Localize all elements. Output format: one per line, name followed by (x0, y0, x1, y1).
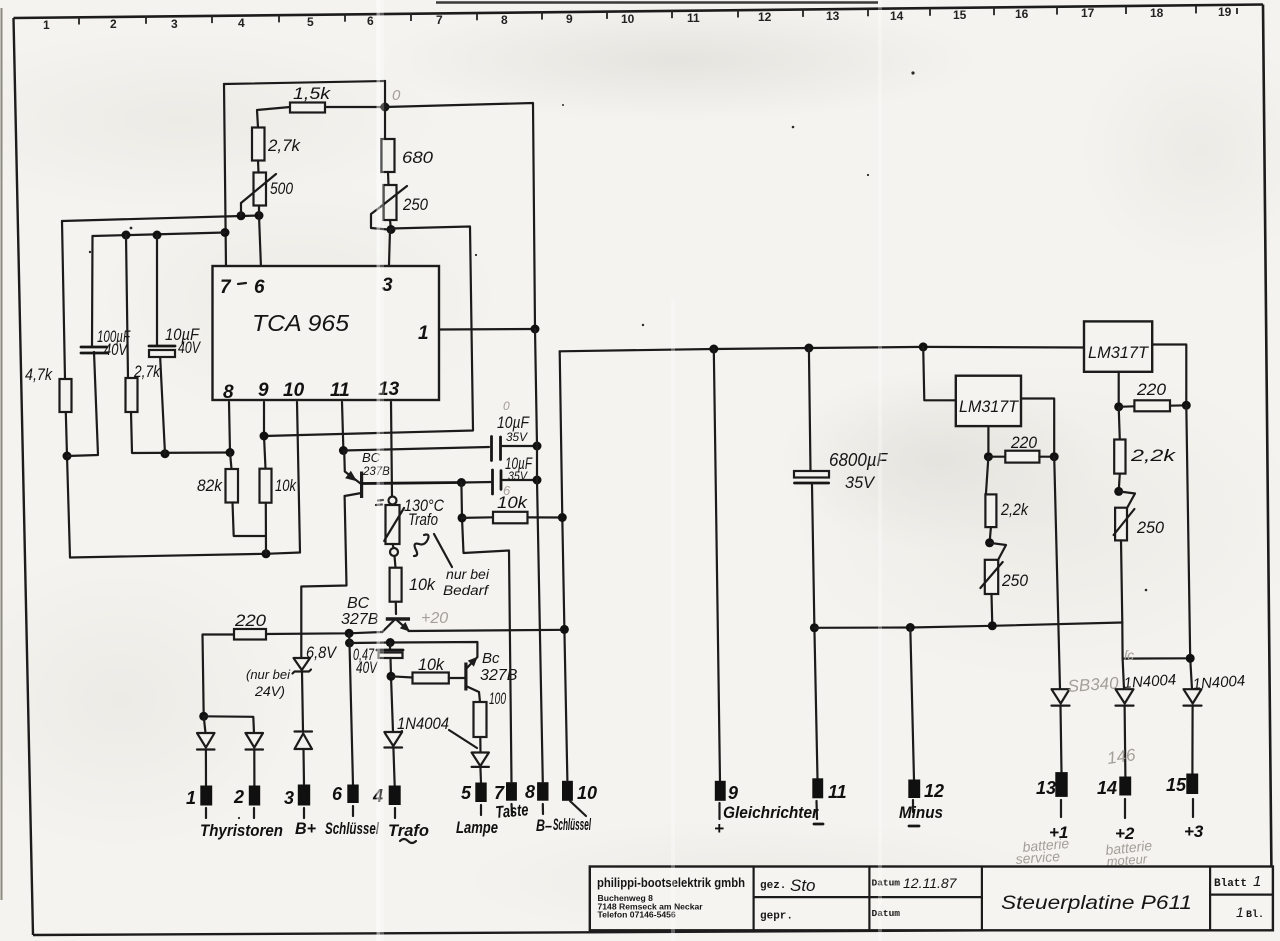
wire D8 to pad15 (1191, 706, 1193, 774)
svg-text:220: 220 (1010, 433, 1037, 452)
wire pin3 junction east then down to y431 rail (264, 227, 473, 437)
node minus rail left junction (810, 623, 819, 632)
wire 100uF top column (91, 236, 94, 347)
connector pad 8 (537, 782, 548, 801)
wire 500 bottom (258, 206, 260, 216)
svg-text:Sto: Sto (790, 876, 816, 895)
wire 10k bottom to y555 rail (265, 503, 267, 554)
svg-text:gez.: gez. (760, 880, 786, 892)
node 10k right junction (558, 513, 567, 522)
svg-text:Schlüssel: Schlüssel (553, 815, 592, 834)
svg-text:TCA 965: TCA 965 (252, 310, 349, 336)
resistor 82k (226, 469, 239, 503)
svg-text:B–: B– (536, 816, 552, 835)
resistor 10k (vertical mid) (390, 568, 402, 602)
svg-text:Bl.: Bl. (1246, 909, 1264, 921)
svg-text:Telefon 07146-5456: Telefon 07146-5456 (598, 910, 676, 920)
wire 0.47uF bottom to diode4 (391, 658, 394, 732)
svg-text:10k: 10k (418, 655, 445, 674)
wire y643 rail to Q3 collector (350, 642, 478, 657)
wire +3 column (1186, 405, 1192, 689)
wire pin 9 column (264, 402, 266, 469)
node cap2 base junction (457, 478, 466, 487)
wire pot-1 wiper bracket (990, 543, 1006, 561)
svg-text:Blatt: Blatt (1214, 878, 1247, 890)
wire 1.5k right link (325, 106, 385, 108)
wire 100 to diode5 (479, 737, 481, 753)
svg-text:7: 7 (494, 783, 505, 803)
svg-text:Gleichrichter: Gleichrichter (723, 803, 819, 822)
svg-text:327B: 327B (480, 667, 518, 684)
wire Q1 collector down-around to zener column (301, 496, 346, 658)
wire LM317-1 adj down (987, 426, 989, 457)
svg-text:3: 3 (284, 788, 294, 808)
svg-text:680: 680 (402, 148, 434, 167)
zener diode 6,8V (293, 643, 338, 674)
node 220-2 right junction (1182, 401, 1191, 410)
potentiometer 250 (left regulator) (980, 560, 1028, 594)
wire 10k to Q2 (395, 602, 397, 614)
svg-text:24V): 24V) (254, 684, 285, 699)
connector pad 1 (200, 786, 212, 806)
resistor 2,2k (right regulator) (1114, 440, 1125, 474)
wire 10k left link (462, 516, 493, 519)
svg-text:11: 11 (828, 782, 847, 802)
node 2.7k top junction (122, 231, 131, 240)
svg-text:(nur bei: (nur bei (246, 668, 291, 682)
svg-text:18: 18 (1150, 6, 1164, 20)
squiggle pigtail (414, 535, 429, 557)
wire 220-2 left link (1119, 405, 1135, 408)
wire diode1 to pad1 (205, 750, 207, 787)
node pot-1 bottom junction (988, 621, 997, 630)
node 10uF40V top junction (153, 231, 162, 240)
connector pad 11 (812, 778, 823, 798)
node 0.47uF top tap (386, 638, 395, 647)
diode D7 1N4004 (1116, 671, 1177, 705)
potentiometer 250 (right regulator) (1114, 508, 1165, 541)
node minus column junction (906, 623, 915, 632)
svg-text:9: 9 (566, 12, 573, 26)
wire D7 to pad14 (1123, 706, 1126, 777)
svg-text:Thyristoren: Thyristoren (200, 821, 283, 840)
node pot-2 top junction (1114, 487, 1123, 496)
wire Q1 base line to cap2 junction (362, 483, 462, 484)
wire diode3 to pad3 (302, 749, 305, 785)
diode D8 1N4004 (1184, 672, 1246, 705)
resistor 680 (382, 139, 395, 172)
node pin11 junction (339, 446, 348, 455)
svg-text:BC: BC (347, 595, 370, 612)
wire 10uF 40V column (157, 235, 165, 454)
svg-text:1: 1 (418, 323, 429, 344)
wire thyristor rail east and down (204, 716, 254, 733)
connector pad 5 (475, 783, 486, 803)
node pin1 junction (531, 325, 540, 334)
wire pot-1 bottom (990, 594, 993, 626)
wire pin 13 column (391, 402, 392, 497)
resistor 2,7k (lower) (126, 378, 138, 412)
connector pad 2 (249, 786, 260, 806)
resistor 2,7k (upper) (252, 128, 265, 161)
node 1.5k/680 junction (381, 103, 390, 112)
svg-text:Minus: Minus (899, 803, 943, 822)
svg-text:Schlüssel: Schlüssel (325, 819, 380, 838)
wire y450 to cap1 (343, 447, 489, 451)
wire SB340 column (1054, 457, 1060, 690)
svg-text:17: 17 (1081, 6, 1095, 20)
svg-text:10k: 10k (409, 575, 436, 594)
svg-text:19: 19 (1218, 5, 1232, 19)
svg-text:13: 13 (1036, 778, 1056, 798)
connector pad 7 (506, 782, 517, 801)
wire 220-1 left link (988, 456, 1005, 458)
node pin9 bottom junction (262, 549, 271, 558)
svg-text:220: 220 (234, 611, 267, 630)
wire 2.2k-1 column (986, 457, 989, 495)
svg-text:35V: 35V (506, 430, 528, 444)
wire Taste column with jog (461, 483, 511, 783)
wire minus rail y627 (814, 623, 1122, 628)
svg-text:40V: 40V (178, 338, 201, 357)
node 220-1 right junction (1050, 452, 1059, 461)
wire bus to LM317-1 input (923, 347, 956, 400)
wire 250 bottom (390, 220, 391, 230)
diode D1 (197, 733, 215, 750)
wire Schluessel column (560, 351, 568, 781)
node bus/6800uF junction (804, 344, 813, 353)
resistor 220 (right regulator) (1134, 400, 1170, 411)
svg-text:2,2k: 2,2k (1000, 500, 1029, 519)
svg-text:10: 10 (577, 783, 597, 803)
wire 2.7k-500 link (257, 161, 260, 173)
op-amp U1 TCA 965 (213, 266, 440, 403)
thermal switch 130C Trafo (376, 496, 445, 556)
svg-text:12: 12 (758, 10, 772, 24)
svg-text:1: 1 (43, 18, 50, 32)
svg-text:2: 2 (110, 17, 117, 31)
node +2/+3 rail junction (1186, 654, 1195, 663)
wire 4.7k top (62, 221, 65, 379)
connector pad 15 (1186, 774, 1198, 795)
svg-text:10k: 10k (497, 493, 529, 512)
node pin8 junction (226, 448, 235, 457)
wire LM317-1 output to 220 right (1021, 399, 1054, 457)
svg-text:4: 4 (238, 16, 245, 30)
wire diode5 to pad5 (479, 767, 482, 783)
svg-text:8: 8 (501, 13, 508, 27)
node pin6 top junction (255, 211, 264, 220)
svg-text:250: 250 (1001, 571, 1028, 590)
svg-text:SB340: SB340 (1067, 673, 1120, 696)
wire 220 right to Q2 (266, 632, 383, 634)
svg-text:Bedarf: Bedarf (443, 583, 489, 598)
connector pad 9 (715, 781, 726, 801)
svg-text:40V: 40V (104, 340, 128, 359)
resistor 10k (horizontal) (413, 673, 449, 684)
minus sign pad12 (909, 825, 919, 828)
wire 2.2k-2 column (1119, 407, 1120, 440)
node 10k base rail tap (387, 672, 396, 681)
wire 680-250 link (387, 172, 390, 185)
svg-text:1N4004: 1N4004 (397, 714, 449, 733)
wire 4.7k bottom to corner (66, 412, 70, 558)
svg-text:Datum: Datum (872, 908, 901, 919)
svg-text:327B: 327B (341, 611, 379, 628)
connector pad 12 (908, 780, 920, 799)
wire cap1 right to B- column (501, 445, 538, 447)
resistor 220 (left) (234, 629, 266, 640)
svg-text:LM317T: LM317T (1088, 343, 1150, 362)
svg-text:0: 0 (503, 399, 510, 413)
svg-text:Trafo: Trafo (408, 510, 438, 529)
node pin7/bias junction (221, 228, 230, 237)
wire 2.7k bottom to pin8 column (131, 412, 230, 453)
wire zener to diode3 (302, 672, 303, 732)
svg-text:2,7k: 2,7k (267, 136, 301, 155)
svg-text:15: 15 (953, 8, 967, 22)
svg-text:service: service (1015, 848, 1061, 867)
wire 10k horizontal left link (391, 676, 413, 677)
svg-text:8: 8 (223, 382, 234, 403)
resistor 2,2k (left regulator) (985, 494, 996, 527)
svg-text:12.11.87: 12.11.87 (903, 875, 958, 891)
wire 10k right link (528, 516, 563, 518)
label nur bei Bedarf with pointer (434, 534, 490, 598)
wire bottom rail y555 (70, 553, 300, 558)
svg-text:Bc: Bc (482, 650, 500, 667)
svg-text:6: 6 (254, 277, 265, 298)
regulator U3 LM317T (1084, 321, 1152, 371)
svg-text:3: 3 (171, 17, 178, 31)
svg-text:2,7k: 2,7k (133, 362, 161, 381)
node thyristor rail junction (199, 712, 208, 721)
wire connector 6 column (349, 633, 353, 785)
potentiometer 500 (241, 173, 293, 206)
capacitor C4 10uF 35V (lower) (493, 454, 534, 498)
wire diode2 to pad2 (253, 750, 255, 787)
regulator U2 LM317T (956, 376, 1021, 426)
connector pad 6 (347, 785, 358, 804)
svg-text:+3: +3 (1184, 822, 1204, 841)
svg-text:100: 100 (489, 689, 506, 708)
title block frame (590, 867, 1273, 931)
svg-text:Taste: Taste (495, 800, 530, 822)
svg-text:6,8V: 6,8V (306, 643, 337, 662)
wire 220-1 right link (1039, 456, 1054, 458)
wire upper-left rail y215 (62, 216, 259, 222)
capacitor 10uF 40V (149, 325, 201, 357)
wire 1.5k node to B- column top (385, 103, 535, 329)
capacitor C3 10uF 35V (upper) (492, 399, 531, 461)
svg-text:1: 1 (1236, 904, 1244, 920)
svg-text:11: 11 (687, 11, 700, 25)
wire to diode1 (204, 716, 206, 733)
svg-text:5: 5 (461, 783, 472, 803)
wire cap2 right to B- column (501, 479, 537, 481)
svg-text:0: 0 (392, 87, 401, 104)
node bus/Gleichrichter junction (709, 345, 718, 354)
node 500-pot wiper junction (237, 211, 246, 220)
svg-text:gepr.: gepr. (760, 911, 793, 923)
svg-text:Lampe: Lampe (456, 818, 498, 837)
wire pin 10 column (297, 402, 300, 553)
wire cap2 left to base junction (461, 481, 492, 484)
node cap2 junction (533, 476, 542, 485)
transistor Q1 BC237B (344, 450, 390, 498)
potentiometer 250 (left) (379, 185, 428, 220)
connector pad 13 (1055, 772, 1067, 797)
svg-text:11: 11 (330, 380, 350, 401)
wire pin 7 column (224, 84, 226, 268)
svg-text:Steuerplatine P611: Steuerplatine P611 (1001, 893, 1192, 914)
svg-text:15: 15 (1166, 775, 1187, 795)
svg-text:12: 12 (924, 781, 944, 801)
svg-text:5: 5 (307, 15, 314, 29)
connector pad 4 (389, 786, 401, 806)
wire pin 3 (389, 230, 390, 266)
wire 6800uF bottom to pad11 (812, 485, 818, 779)
node pot-1 top junction (985, 538, 994, 547)
connector pad 10 (562, 781, 573, 801)
svg-text:146: 146 (1106, 745, 1137, 768)
svg-text:6: 6 (367, 14, 374, 28)
connector pad 14 (1119, 777, 1131, 796)
wire SB340 to pad13 (1061, 706, 1062, 773)
wire 82k bottom link to pin9 column (233, 503, 267, 537)
capacitor C5 6800uF 35V (794, 450, 888, 492)
svg-text:7: 7 (436, 13, 443, 27)
wire 2.7k column (126, 235, 128, 378)
wire pot-2 bottom to +2 column (1121, 540, 1190, 658)
svg-text:237B: 237B (362, 466, 390, 478)
wire 2.2k-1 to pot (990, 527, 991, 543)
wire 10k to Q3 base (449, 677, 465, 679)
wire 220 left rail with corner down (203, 635, 235, 717)
svg-text:1: 1 (186, 788, 196, 808)
svg-text:B+: B+ (295, 819, 316, 838)
wire 220-2 right link (1170, 404, 1186, 407)
svg-text:14: 14 (890, 9, 904, 23)
wire pin8 to 82k (230, 453, 232, 470)
resistor 4,7k (60, 379, 72, 412)
wire switch to 10k vertical (395, 556, 396, 568)
wire Gleichrichter column (714, 349, 720, 781)
svg-text:7: 7 (220, 277, 232, 298)
node 220-1 left junction (984, 452, 993, 461)
node 4.7k / 100uF bottom junction (63, 452, 72, 461)
svg-text:13: 13 (826, 9, 840, 23)
node connector6 top junction (345, 629, 354, 638)
svg-text:4,7k: 4,7k (25, 365, 53, 384)
resistor 10k (Taste) (493, 512, 528, 524)
svg-text:10: 10 (283, 380, 305, 401)
node 0.47uF rail junction (345, 639, 354, 648)
wire +2 column down (1123, 659, 1124, 690)
svg-text:10: 10 (621, 12, 635, 26)
wire pin 1 to B- column (439, 328, 535, 331)
svg-text:14: 14 (1097, 778, 1117, 798)
label 1N4004 with pointer lines (396, 714, 477, 748)
minus sign pad11 (814, 823, 823, 826)
capacitor 100uF 40V (81, 327, 131, 359)
wire 6800uF column top (809, 348, 811, 471)
wire 2.2k-2 to pot (1119, 474, 1120, 492)
svg-text:6: 6 (332, 784, 343, 804)
wire pin 8 column (229, 402, 230, 453)
svg-text:250: 250 (402, 195, 428, 214)
wire LM317-2 adj down (1118, 372, 1120, 407)
wire B- column (535, 329, 543, 783)
svg-text:2,2k: 2,2k (1130, 446, 1177, 465)
svg-text:35V: 35V (845, 473, 876, 492)
wire 1.5k left link (257, 107, 290, 128)
svg-text:LM317T: LM317T (959, 397, 1020, 416)
wire mid-left rail y235 (93, 233, 226, 237)
node cap1 junction (533, 442, 542, 451)
svg-text:8: 8 (525, 782, 535, 802)
svg-text:1: 1 (1253, 873, 1261, 890)
svg-text:Trafo: Trafo (388, 821, 429, 840)
svg-text:nur bei: nur bei (446, 567, 490, 582)
resistor 10k (pin9) (260, 469, 272, 503)
wire top rail from pin7 column to 680 column (224, 81, 385, 84)
svg-text:ſc: ſc (1124, 647, 1134, 663)
svg-text:Datum: Datum (872, 878, 901, 889)
wire LM317-2 output right (1152, 345, 1186, 406)
wire 680 column top (384, 81, 386, 139)
svg-text:82k: 82k (197, 476, 223, 495)
diode D2 (246, 733, 264, 750)
transistor Q2 BC327B (341, 595, 410, 632)
wire pin 6 column (259, 216, 261, 269)
svg-text:250: 250 (1136, 518, 1164, 537)
wire 250 wiper bracket (371, 208, 388, 230)
svg-text:16: 16 (1015, 7, 1029, 21)
svg-text:2: 2 (233, 787, 244, 807)
node 220-2 left junction (1114, 402, 1123, 411)
svg-text:9: 9 (728, 783, 738, 803)
wire diode4 to pad4 (393, 748, 394, 787)
wire main supply bus y349 (560, 347, 1084, 351)
transistor Q3 BC327B (466, 650, 518, 702)
svg-text:40V: 40V (356, 658, 378, 677)
label (nur bei 24V) (246, 668, 291, 699)
diode D4 (Trafo line) (384, 732, 402, 748)
wire Q2 emitter east line y630 (409, 630, 566, 631)
svg-text:1,5k: 1,5k (293, 84, 332, 103)
node 10k left junction (458, 513, 467, 522)
node bus/LM317-1 junction (919, 342, 928, 351)
resistor 1,5k (290, 103, 325, 113)
svg-text:500: 500 (270, 179, 293, 198)
wire pin 11 column (342, 402, 343, 451)
svg-text:+: + (714, 819, 724, 838)
diode D6 SB340 (1052, 673, 1120, 705)
node pin9 y436 junction (260, 432, 269, 441)
resistor 100 (474, 702, 487, 737)
diode D3 (B+ line) (295, 732, 313, 750)
svg-text:220: 220 (1136, 380, 1167, 399)
node 10uF40V bottom junction (161, 449, 170, 458)
wire pot-2 wiper bracket (1119, 491, 1135, 509)
wire 500 wiper drop (240, 203, 242, 216)
resistor 220 (left regulator) (1005, 451, 1039, 463)
wire Minus column (910, 628, 914, 781)
diode D5 (Lampe line) (472, 753, 489, 767)
svg-text:+20: +20 (421, 610, 448, 627)
node Q2 emitter rail junction (560, 625, 569, 634)
